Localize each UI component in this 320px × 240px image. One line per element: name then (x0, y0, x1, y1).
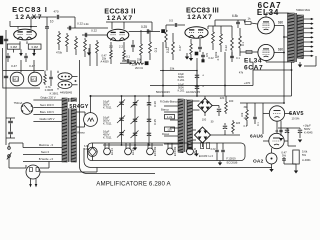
tube P2 EL34 (258, 44, 274, 60)
wire T3 taps left (164, 106, 178, 144)
resistor v3 cath (190, 39, 193, 56)
label T2 taps (296, 8, 310, 12)
capacitor 0.47 ch1 (6, 53, 17, 68)
resistor bias a (201, 143, 210, 149)
svg-text:12AX7: 12AX7 (187, 14, 213, 21)
svg-text:0.22: 0.22 (166, 47, 170, 53)
ground reg (284, 164, 298, 173)
tube V3 ECC83-III (185, 27, 208, 39)
svg-text:0.1: 0.1 (236, 56, 240, 60)
wire V2 plates (106, 22, 130, 29)
capacitor band b (230, 52, 234, 62)
label 0.35 vert (153, 119, 157, 125)
label psu top b (186, 90, 201, 94)
wire chassis outline (84, 148, 272, 168)
label 0.22 band (208, 56, 214, 60)
label bianco (161, 108, 169, 112)
wire connector riser (58, 60, 80, 90)
svg-text:K.201: K.201 (178, 89, 185, 93)
svg-text:12AX7: 12AX7 (107, 15, 134, 22)
svg-text:3.3M: 3.3M (10, 45, 17, 49)
svg-text:EL34: EL34 (131, 148, 135, 155)
svg-text:12k: 12k (167, 128, 172, 132)
label K 3901 (50, 91, 59, 95)
svg-text:Giallo 125 V: Giallo 125 V (40, 117, 55, 121)
svg-text:0.22: 0.22 (224, 45, 228, 51)
capacitor line filter b (6, 126, 15, 138)
ground bias (194, 150, 198, 156)
resistor 47k a (84, 38, 87, 57)
wire plug to tx (40, 162, 97, 173)
tube V7 OA2 (266, 153, 277, 164)
resistor 470k (56, 31, 63, 54)
capacitor C1a (117, 100, 125, 108)
wire y103 bus (240, 102, 285, 104)
svg-text:470: 470 (53, 10, 58, 14)
wire tap marrone (23, 143, 62, 147)
ground v3 (189, 56, 193, 61)
capacitor 0.1 v2 (131, 40, 135, 52)
capacitor bridge1 (217, 109, 221, 116)
label tube V3 type (186, 5, 219, 21)
jack J1 MIC1 (10, 60, 24, 86)
svg-text:Bianco: Bianco (161, 108, 169, 112)
label ecc83 I (199, 154, 213, 158)
svg-text:0.5: 0.5 (169, 19, 173, 23)
power transformer T1 core (68, 98, 70, 162)
tube V2 ECC83-II (107, 29, 129, 41)
label 47k mid (239, 70, 244, 74)
resistor 4.7k (44, 71, 52, 90)
svg-text:0.47: 0.47 (11, 64, 17, 68)
svg-text:20k: 20k (122, 59, 127, 63)
capacitor C2c (131, 131, 139, 139)
capacitor C1c (117, 130, 125, 138)
svg-text:A4.60/1.70: A4.60/1.70 (186, 90, 201, 94)
capacitor C3a (147, 103, 151, 106)
svg-text:750mA: 750mA (14, 101, 23, 105)
svg-text:Rosso: Rosso (77, 131, 85, 135)
wire grid P2 (240, 51, 258, 54)
svg-text:0.0005: 0.0005 (45, 88, 54, 92)
capacitor bank text 3 (103, 130, 112, 140)
svg-text:+270: +270 (244, 81, 251, 85)
svg-text:33k: 33k (170, 66, 175, 70)
svg-text:K.201: K.201 (178, 78, 185, 82)
shield arrow input 2 (32, 49, 36, 56)
wire mains to plug (9, 165, 26, 168)
resistor 1k grid P1 (244, 16, 258, 24)
label 0.1 band (236, 56, 240, 60)
capacitor out a (275, 121, 300, 141)
wire tap nero (23, 150, 62, 154)
terminals T2 secondary taps (304, 18, 314, 57)
resistor R2 3.3M grid (28, 44, 41, 53)
svg-text:0.22: 0.22 (208, 56, 214, 60)
terminal block sq (145, 62, 148, 65)
wire B+ top rail (91, 95, 292, 97)
svg-text:0.39: 0.39 (153, 101, 157, 107)
lamp pilot (88, 143, 97, 161)
label 0.47 5% (281, 150, 287, 157)
svg-text:B.Verde + 0: B.Verde + 0 (39, 157, 54, 161)
resistor R1 3.3M grid (7, 44, 20, 53)
wire x197 drop (196, 58, 198, 96)
capacitor C1b (117, 116, 125, 124)
tube V6 6AU6 (269, 133, 284, 148)
label V6 type (250, 134, 263, 140)
bridge rectifier D2 (193, 127, 211, 147)
wire v3 out (208, 20, 246, 29)
wire V1 cathodes (20, 41, 27, 44)
svg-text:F.12819: F.12819 (226, 157, 236, 161)
svg-text:M 2: M 2 (32, 78, 37, 82)
label 0.22 vert (166, 45, 182, 53)
resistor 1M (66, 33, 69, 52)
label 6 3v (211, 149, 216, 151)
wire reg interconnect (263, 103, 292, 153)
ground T2 (298, 56, 316, 67)
wire bridge2 out (211, 130, 241, 135)
label 100k vert (214, 51, 218, 58)
svg-text:470k: 470k (56, 50, 63, 54)
wire outer outline 2 (80, 88, 156, 174)
wire P1 plate (266, 13, 289, 17)
plug prongs (29, 179, 37, 187)
svg-text:25k: 25k (137, 58, 142, 62)
wire feedback (253, 62, 292, 96)
wire y28 rail (67, 17, 108, 30)
svg-text:5R4GY: 5R4GY (69, 104, 88, 110)
svg-text:Bian. 160 V: Bian. 160 V (40, 110, 54, 114)
ground cap bank (133, 145, 137, 150)
resistor 220k v2 (149, 30, 152, 60)
resistor v3 left (165, 25, 168, 48)
wire tap verde (23, 157, 62, 161)
svg-text:0.1: 0.1 (126, 55, 130, 59)
svg-text:R.Giallo-Bianco: R.Giallo-Bianco (160, 99, 178, 103)
label 6.8k (232, 14, 238, 18)
wire x225 drop (224, 52, 226, 96)
resistor 12k box (165, 127, 175, 132)
output transformer T2 secondary (297, 15, 303, 58)
wire cap col 3 (148, 96, 150, 145)
label tube V2 type (104, 6, 136, 22)
resistor 213 (212, 26, 215, 50)
tube V1 ECC83-I (14, 29, 37, 40)
wire tap 125V (33, 117, 62, 121)
wire tap 200V (33, 103, 62, 107)
svg-text:6AU6: 6AU6 (193, 147, 197, 155)
wire screens (274, 26, 285, 104)
label giallo-bianco (160, 99, 178, 103)
connector CN2 (58, 80, 78, 88)
svg-text:30k: 30k (244, 106, 249, 109)
svg-text:47k: 47k (239, 70, 244, 74)
wire tap 160V (33, 110, 62, 114)
wire cap col 1 (121, 96, 123, 145)
wire bridge1 out (212, 106, 219, 109)
capacitor heater a (215, 143, 219, 161)
svg-text:ECC83 II: ECC83 II (104, 6, 136, 15)
label 3M 1% (135, 66, 144, 70)
wire v2 to v3 (83, 22, 164, 34)
label 0.1 vert r (241, 42, 245, 46)
svg-text:0.1: 0.1 (256, 122, 260, 126)
svg-text:Marrone - 0: Marrone - 0 (39, 143, 54, 147)
label 449/5845 (60, 91, 73, 95)
svg-text:0.47: 0.47 (178, 45, 182, 51)
transformer T3 core (185, 99, 187, 152)
capacitor 16uF b (178, 78, 204, 96)
svg-text:0.1: 0.1 (275, 131, 279, 133)
capacitor C2b (131, 117, 139, 125)
resistor mid 173 (172, 33, 175, 60)
ground heater (218, 161, 222, 166)
svg-text:0.3A: 0.3A (84, 148, 89, 151)
svg-text:6.8k: 6.8k (232, 14, 238, 18)
switch mains (7, 143, 23, 168)
power transformer T1 primary (62, 98, 67, 162)
wire T2 center tap (284, 36, 289, 38)
svg-text:K.4045: K.4045 (304, 130, 313, 134)
wire cap bottom rail (103, 144, 163, 146)
tube V5 6AV5 (269, 106, 284, 121)
svg-text:10: 10 (50, 19, 54, 23)
label 4.7k vert (216, 55, 220, 61)
svg-text:EL34: EL34 (110, 148, 114, 155)
label collegare (202, 118, 214, 124)
resistor 5.6k box (293, 150, 311, 164)
svg-text:ECC81/B: ECC81/B (227, 160, 238, 164)
wire heater loop (88, 143, 246, 161)
resistor bias (232, 120, 241, 134)
svg-text:6.3V: 6.3V (211, 149, 216, 151)
svg-text:K 3901: K 3901 (50, 91, 59, 95)
svg-text:0.1: 0.1 (241, 42, 245, 46)
svg-text:ECC83: ECC83 (173, 146, 177, 156)
capacitor C3c (147, 133, 151, 136)
resistor 100k (75, 36, 78, 55)
svg-text:100: 100 (229, 99, 234, 103)
capacitor 0.0005 (45, 71, 54, 93)
label 0.39 vert (153, 101, 157, 107)
svg-text:10 5%: 10 5% (292, 117, 300, 121)
capacitor band a (201, 52, 205, 62)
svg-text:EL34: EL34 (257, 8, 279, 17)
resistor 47k b (96, 40, 99, 59)
label title (96, 180, 171, 187)
wire rect cathode (90, 95, 92, 113)
label psu top a (156, 90, 170, 94)
svg-text:680: 680 (278, 47, 283, 51)
label out caps (303, 124, 313, 135)
svg-text:100: 100 (202, 118, 207, 122)
wire y85 bus (150, 70, 253, 86)
capacitor out b (298, 128, 302, 142)
svg-text:1k5: 1k5 (236, 121, 241, 125)
svg-text:0.25: 0.25 (141, 25, 147, 29)
label V5 type (289, 111, 304, 121)
resistor 221 (220, 26, 223, 52)
resistor 1.2k box (165, 115, 175, 120)
ground OA2 (269, 164, 273, 172)
capacitor C 470 coupling (31, 10, 75, 27)
svg-text:2.2: 2.2 (119, 45, 124, 49)
wire y70 bus mid (160, 66, 198, 71)
svg-text:500V: 500V (304, 127, 310, 131)
svg-text:6AU6: 6AU6 (250, 134, 263, 140)
svg-text:K.7511: K.7511 (103, 106, 112, 110)
output transformer T2 primary (288, 13, 295, 62)
svg-text:0.22: 0.22 (77, 22, 83, 26)
label tube V1 type (12, 5, 48, 21)
label A 4059 block (87, 48, 109, 64)
svg-text:5%: 5% (302, 153, 307, 157)
tube P1 EL34 (258, 17, 275, 34)
rectifier V4 5R4GY (84, 113, 98, 127)
wire left shield bus (0, 30, 8, 145)
svg-text:+: + (202, 85, 204, 89)
ground mid band (185, 53, 189, 59)
label P2 type (244, 58, 263, 72)
svg-text:22k: 22k (132, 63, 137, 67)
capacitor v3 cath (198, 39, 202, 52)
capacitor 10 (45, 19, 53, 70)
capacitor reg left (253, 103, 260, 126)
bridge rectifier D1 (193, 96, 213, 116)
wire reg right (284, 128, 296, 146)
svg-text:M 1: M 1 (14, 78, 19, 82)
svg-text:30: 30 (211, 120, 214, 124)
wire x163 drop (162, 42, 164, 96)
capacitor v3 grid (166, 19, 185, 27)
resistor bridge1 (225, 96, 234, 114)
heaters tube filaments (104, 143, 197, 156)
jack J2 MIC2 (28, 60, 42, 86)
svg-text:4.7k: 4.7k (216, 55, 220, 61)
capacitor 0.1 b (122, 55, 136, 63)
label 680 P1 (278, 20, 283, 24)
svg-text:680: 680 (278, 20, 283, 24)
potentiometer 25k (120, 58, 144, 65)
capacitor bank text 2 (103, 116, 112, 126)
wire y35 rail (82, 29, 108, 38)
svg-text:A.4061: A.4061 (302, 158, 311, 162)
label 22k (132, 63, 137, 67)
label rectifier type (68, 102, 89, 110)
terminal sq v3 (195, 52, 198, 55)
svg-text:3.3M: 3.3M (31, 45, 38, 49)
resistor 2.2k cath a (109, 42, 114, 49)
wire rect plates (76, 112, 85, 127)
svg-text:0.35: 0.35 (153, 119, 157, 125)
shield arrow input 1 (19, 49, 23, 56)
svg-text:ECC83: ECC83 (153, 146, 157, 156)
output transformer T2 core (295, 13, 296, 62)
capacitor heater b (221, 143, 225, 161)
capacitor 238 (236, 20, 240, 28)
svg-text:K.7511: K.7511 (103, 122, 112, 126)
label 0.1 vert (154, 48, 158, 53)
svg-text:OA2: OA2 (253, 158, 264, 164)
label lamp (84, 145, 89, 151)
resistor 100k v2 (140, 30, 143, 62)
label 0.22 vert r (224, 45, 228, 51)
label rosso (77, 131, 85, 135)
label V7 type (253, 158, 264, 164)
svg-text:K.7511: K.7511 (103, 136, 112, 140)
label P1 type (257, 1, 281, 17)
resistor 232 (231, 26, 234, 58)
label rosso2 (162, 132, 170, 136)
capacitor C2a (131, 100, 139, 108)
resistor 2.2k cath b (119, 42, 125, 60)
svg-text:0.22: 0.22 (91, 29, 97, 33)
svg-text:6CA7: 6CA7 (244, 65, 263, 72)
svg-text:ECC83 I: ECC83 I (12, 5, 48, 14)
capacitor bank text 1 (103, 100, 112, 110)
wire V1 plate to top rail (10, 17, 37, 29)
fuse 750mA (14, 101, 33, 114)
wire P2 plate (266, 61, 289, 62)
svg-text:0.1: 0.1 (244, 125, 248, 128)
capacitor line filter a (6, 118, 15, 126)
wire cap col 2 (134, 96, 136, 145)
label f12819 (226, 157, 237, 165)
svg-text:500Ω/16Ω: 500Ω/16Ω (296, 8, 310, 12)
resistor reg left (240, 103, 248, 128)
svg-text:449/5845: 449/5845 (60, 91, 73, 95)
svg-text:1.2k: 1.2k (167, 115, 173, 119)
svg-text:Nero 200 V: Nero 200 V (40, 103, 54, 107)
svg-text:A 4059: A 4059 (100, 60, 109, 64)
svg-text:1k2: 1k2 (244, 117, 249, 120)
transformer T3 winding (178, 99, 183, 153)
wire input bus (3, 48, 45, 88)
capacitor bridge2 (223, 123, 227, 129)
resistor 240 (239, 28, 242, 56)
svg-text:6AV5: 6AV5 (289, 111, 304, 117)
svg-text:ECC83 I e II: ECC83 I e II (199, 154, 213, 158)
capacitor 16uF a (178, 71, 204, 83)
capacitor C3b (147, 119, 151, 122)
capacitor 0.47 reg (282, 157, 286, 164)
power transformer T1 secondary (71, 98, 76, 162)
svg-text:Grigio 220 V: Grigio 220 V (40, 96, 55, 100)
plug mains (26, 165, 40, 179)
svg-text:Rosso: Rosso (162, 132, 170, 136)
svg-text:0.1: 0.1 (154, 48, 158, 53)
label 220 (220, 96, 225, 100)
connector CN1 (58, 73, 78, 80)
svg-text:+16µF: +16µF (303, 124, 311, 128)
wire tap 220V (33, 96, 62, 100)
capacitor 0.47 ch2 (24, 53, 35, 68)
svg-text:1.2k: 1.2k (83, 22, 89, 26)
svg-text:+: + (202, 74, 204, 78)
svg-text:AMPLIFICATORE 6.280 A: AMPLIFICATORE 6.280 A (96, 180, 171, 187)
svg-text:1k: 1k (247, 16, 251, 20)
svg-text:Nero 0: Nero 0 (41, 150, 50, 154)
transformer T3 secondary (187, 100, 192, 149)
label 0.5u vert (205, 53, 209, 57)
resistor V2 a (110, 49, 113, 64)
svg-text:500/3443V: 500/3443V (156, 90, 170, 94)
svg-text:220: 220 (220, 96, 225, 100)
wire stage1 bus (90, 44, 97, 66)
label 680 P2 (278, 47, 283, 51)
